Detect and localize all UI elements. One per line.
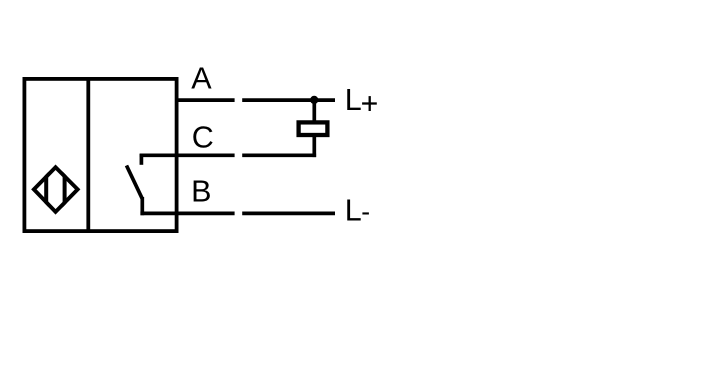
wire A inner segment: [176, 98, 235, 102]
sensor head divider: [86, 77, 90, 231]
supply label plus sign vertical: [369, 96, 371, 111]
wire C inner segment: [140, 153, 235, 157]
switch lever lower link: [140, 197, 144, 215]
wire B inner segment: [140, 212, 234, 216]
junction node on L+: [310, 96, 318, 104]
sensor body outline: [24, 79, 176, 231]
wire A outer segment: [242, 98, 335, 102]
inductive proximity sensor symbol (diamond outline): [34, 167, 78, 212]
svg-text:A: A: [191, 62, 212, 96]
svg-text:C: C: [192, 121, 214, 155]
wire B outer segment: [242, 212, 335, 216]
switch fixed contact stub: [140, 154, 144, 165]
load upper lead wire: [312, 98, 316, 124]
load lower lead wire: [312, 133, 316, 157]
supply label plus sign horizontal: [362, 102, 377, 104]
supply label minus sign: [362, 212, 369, 214]
svg-text:L: L: [345, 83, 362, 117]
svg-text:L: L: [345, 194, 362, 228]
load resistor rectangle: [299, 122, 328, 135]
svg-text:B: B: [191, 174, 211, 208]
switch lever (open contact): [127, 166, 143, 199]
inductive symbol inner bar right: [63, 163, 67, 216]
wire C outer segment: [242, 153, 316, 157]
inductive symbol inner bar left: [44, 163, 48, 216]
